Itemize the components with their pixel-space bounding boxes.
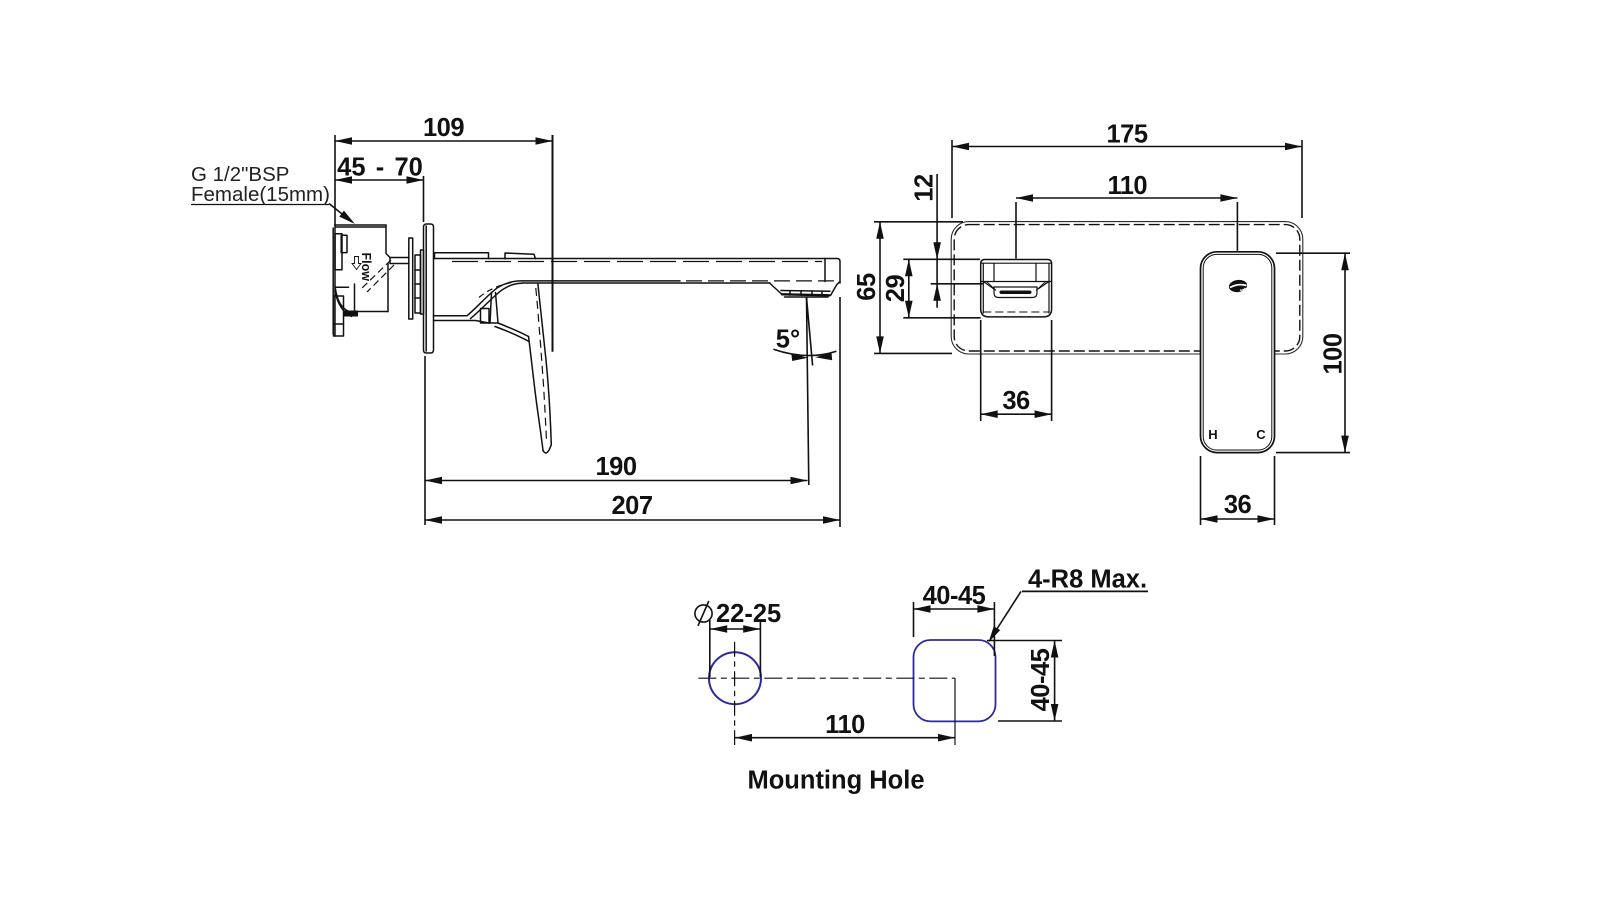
svg-text:4-R8 Max.: 4-R8 Max. [1028, 565, 1147, 593]
svg-text:110: 110 [825, 711, 865, 739]
svg-text:22-25: 22-25 [716, 600, 781, 628]
svg-text:109: 109 [423, 114, 464, 142]
svg-text:36: 36 [1002, 387, 1030, 415]
svg-text:5°: 5° [776, 326, 800, 354]
svg-text:110: 110 [1107, 172, 1147, 200]
svg-text:207: 207 [611, 492, 652, 520]
svg-text:40-45: 40-45 [923, 582, 986, 610]
svg-text:12: 12 [911, 174, 939, 202]
svg-text:190: 190 [595, 453, 636, 481]
svg-text:Flow: Flow [359, 253, 373, 282]
svg-text:36: 36 [1224, 491, 1252, 519]
svg-text:175: 175 [1106, 120, 1147, 148]
svg-text:45 - 70: 45 - 70 [337, 154, 423, 182]
svg-text:C: C [1256, 427, 1266, 442]
svg-text:29: 29 [882, 275, 910, 303]
svg-text:Female(15mm): Female(15mm) [191, 183, 330, 206]
svg-text:H: H [1208, 427, 1217, 442]
svg-text:65: 65 [853, 273, 881, 301]
svg-text:100: 100 [1320, 333, 1348, 374]
svg-text:Mounting Hole: Mounting Hole [747, 767, 924, 795]
svg-text:40-45: 40-45 [1027, 648, 1055, 711]
